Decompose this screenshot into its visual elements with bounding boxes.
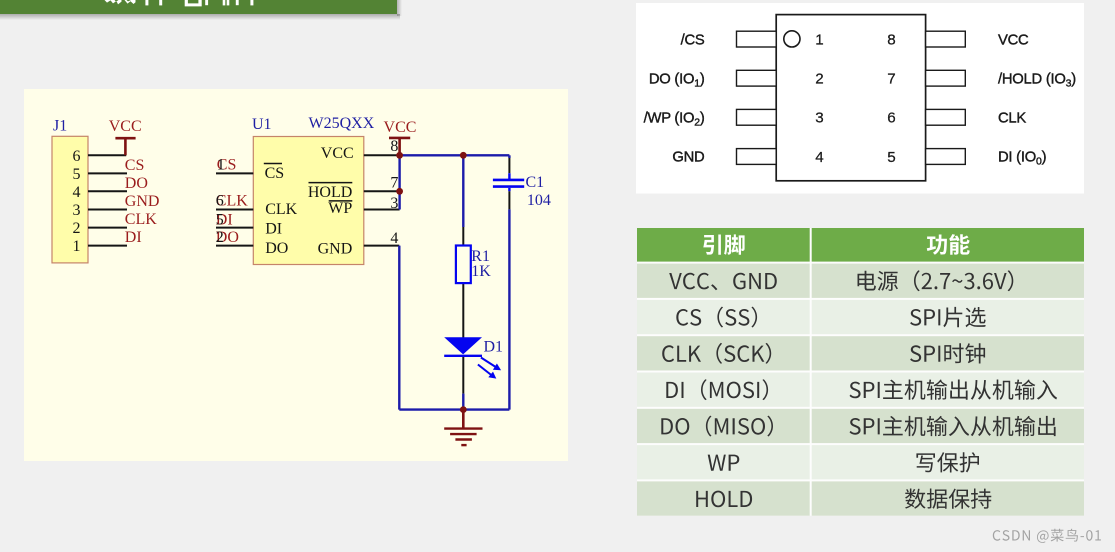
- header 引脚: [703, 234, 744, 254]
- green title bar: [0, 0, 397, 14]
- svg-text:1: 1: [73, 238, 81, 255]
- wire: top rail: [400, 154, 510, 156]
- svg-text:CLK: CLK: [998, 111, 1026, 127]
- svg-text:5: 5: [73, 166, 81, 183]
- watermark: [988, 524, 1115, 546]
- svg-text:DI: DI: [265, 221, 282, 238]
- IC package body: [776, 15, 925, 181]
- pin function table: [637, 228, 1084, 518]
- label R1 1K: [471, 248, 491, 280]
- ground: [444, 410, 482, 446]
- wire: VCC vertical bus pins 8/7/3: [398, 155, 400, 209]
- svg-text:DO: DO: [265, 240, 288, 257]
- svg-text:8: 8: [887, 32, 895, 49]
- schematic panel: [24, 89, 568, 461]
- svg-text:VCC: VCC: [384, 119, 417, 136]
- svg-text:GND: GND: [318, 240, 353, 257]
- svg-text:CLK: CLK: [125, 211, 157, 228]
- capacitor C1: [493, 180, 524, 187]
- svg-text:CS: CS: [265, 165, 285, 182]
- U1 left net labels CS CLK DI DO with pin numbers 1 6 5 2: [216, 157, 248, 247]
- svg-text:CS: CS: [125, 157, 145, 174]
- U1 right pin wires (VCC 8, HOLD 7, WP 3, GND 4): [364, 155, 400, 245]
- title text fragments (cut off): [0, 0, 300, 8]
- svg-text:1: 1: [217, 157, 225, 174]
- svg-text:DO: DO: [125, 175, 148, 192]
- svg-text:J1: J1: [53, 118, 67, 135]
- svg-text:2: 2: [73, 220, 81, 237]
- wire: C1 branch: [508, 155, 510, 158]
- U1 pin names: [265, 145, 354, 257]
- header 功能: [927, 234, 970, 255]
- pin pads: [737, 31, 966, 164]
- svg-text:DI: DI: [125, 229, 142, 246]
- table row 2: [676, 307, 757, 328]
- svg-text:7: 7: [887, 71, 895, 88]
- net labels on J1 pins: [125, 157, 160, 246]
- IC U1 W25QXX body: [253, 137, 363, 265]
- wire: bottom rail: [399, 408, 509, 410]
- LED D1: [444, 337, 501, 378]
- svg-text:3: 3: [73, 202, 81, 219]
- svg-text:C1: C1: [526, 174, 545, 191]
- table row 5: [661, 416, 773, 437]
- svg-text:6: 6: [887, 110, 895, 127]
- svg-text:CLK: CLK: [265, 201, 297, 218]
- active-low overlines CS, HOLD, WP: [264, 164, 353, 201]
- U1 left pin wires (CS,CLK,DI,DO): [216, 173, 253, 245]
- svg-text:VCC: VCC: [998, 32, 1029, 48]
- svg-text:6: 6: [216, 193, 224, 210]
- svg-text:4: 4: [390, 230, 398, 247]
- svg-text:4: 4: [73, 184, 81, 201]
- svg-text:2: 2: [216, 229, 224, 246]
- power VCC (J1): [109, 118, 142, 155]
- J1 pin wires: [88, 155, 127, 245]
- wire: GND pin drop: [398, 246, 400, 410]
- svg-text:3: 3: [815, 110, 823, 127]
- svg-text:1K: 1K: [471, 263, 491, 280]
- table row 3: [662, 343, 771, 364]
- svg-text:4: 4: [815, 149, 823, 166]
- table row 1: [669, 273, 777, 291]
- pin numbers: [815, 32, 895, 166]
- watermark CSDN @菜鸟-01: [993, 529, 1101, 543]
- wire: R1/LED branch: [462, 155, 464, 227]
- pinout figure panel: [636, 3, 1084, 194]
- svg-text:U1: U1: [252, 116, 272, 133]
- svg-text:104: 104: [527, 192, 551, 209]
- label C1 104: [526, 174, 551, 209]
- svg-text:1: 1: [815, 32, 823, 49]
- table row 7: [696, 491, 752, 508]
- svg-text:/HOLD (IO3): /HOLD (IO3): [998, 71, 1076, 89]
- svg-text:VCC: VCC: [321, 145, 354, 162]
- svg-text:VCC: VCC: [109, 118, 142, 135]
- power VCC (U1): [384, 119, 417, 155]
- left pin labels: [644, 32, 705, 165]
- U1 right pin numbers 8 7 3 4: [390, 138, 398, 247]
- svg-text:GND: GND: [125, 193, 160, 210]
- svg-text:2: 2: [815, 71, 823, 88]
- svg-text:5: 5: [216, 212, 224, 229]
- table row 6: [708, 455, 740, 471]
- right pin labels: [998, 32, 1076, 167]
- J1 pin numbers 6..1: [73, 148, 81, 255]
- table row 4: [666, 379, 768, 400]
- svg-text:5: 5: [887, 149, 895, 166]
- svg-text:WP: WP: [328, 200, 352, 217]
- resistor R1: [456, 246, 471, 284]
- svg-text:W25QXX: W25QXX: [309, 115, 375, 132]
- svg-text:GND: GND: [672, 150, 704, 166]
- svg-text:3: 3: [390, 195, 398, 212]
- connector J1: [52, 136, 88, 263]
- svg-text:6: 6: [73, 148, 81, 165]
- svg-text:D1: D1: [484, 339, 504, 356]
- junction dots: [396, 152, 466, 413]
- svg-text:HOLD: HOLD: [308, 184, 352, 201]
- svg-text:8: 8: [390, 138, 398, 155]
- svg-text:/CS: /CS: [681, 32, 705, 48]
- pin 1 indicator circle: [784, 31, 800, 47]
